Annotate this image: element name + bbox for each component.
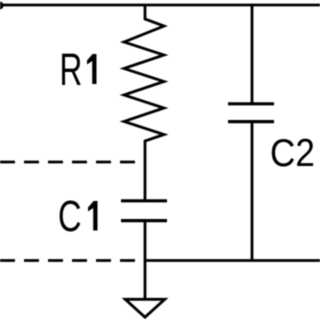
capacitor C2 [228, 104, 274, 122]
dashed boundary upper [0, 161, 137, 164]
wire right branch upper [251, 5, 254, 103]
node dot top-left [0, 2, 4, 10]
wire top rail [0, 4, 320, 7]
resistor R1 [124, 5, 164, 200]
ground [125, 299, 165, 317]
capacitor C1 [121, 201, 167, 221]
svg-text:C2: C2 [270, 130, 315, 174]
wire C1 to ground [144, 222, 147, 299]
svg-text:R: R [60, 46, 83, 96]
svg-text:C: C [58, 192, 82, 241]
dashed boundary lower [0, 259, 137, 262]
wire right branch lower [251, 123, 254, 261]
wire bottom rail [144, 259, 320, 262]
